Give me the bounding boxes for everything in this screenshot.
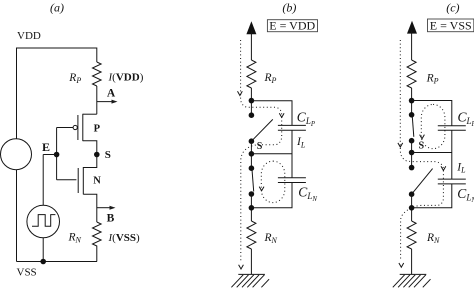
- node B arrow: [97, 207, 112, 209]
- wire bottom rail: [17, 261, 98, 263]
- dashed arrowhead b2: [279, 113, 284, 117]
- dashed current path (b): [241, 40, 282, 261]
- wire branch bottom (c): [412, 184, 452, 208]
- node E: [54, 152, 60, 158]
- wire branch top to CLP: [251, 101, 292, 126]
- svg-text:S: S: [257, 141, 263, 152]
- svg-text:RP: RP: [68, 72, 81, 85]
- op wire E gate vertical: [56, 128, 58, 180]
- svg-text:RN: RN: [264, 232, 278, 245]
- wire below switch N (c): [411, 194, 413, 221]
- VDD arrow: [246, 21, 256, 34]
- svg-text:(b): (b): [282, 1, 296, 15]
- wire branch mid: [251, 153, 292, 155]
- dashed current path (c): [400, 40, 443, 261]
- svg-text:N: N: [93, 175, 101, 186]
- node c7: [409, 205, 415, 211]
- svg-text:P: P: [94, 124, 101, 135]
- node c3: [409, 138, 415, 144]
- svg-text:CLP: CLP: [458, 110, 474, 128]
- svg-text:IL: IL: [456, 162, 466, 175]
- capacitor CLP: [278, 124, 306, 126]
- node b7: [249, 205, 255, 211]
- wire S segment (c): [411, 141, 413, 168]
- capacitor CLP (c): [438, 125, 466, 127]
- node c2: [409, 112, 415, 118]
- node b2: [249, 112, 255, 118]
- svg-text:B: B: [107, 212, 115, 224]
- svg-text:A: A: [107, 87, 116, 99]
- box E = VDD: [267, 20, 317, 32]
- resistor RN: [93, 222, 102, 262]
- pulse source VG: [27, 205, 60, 238]
- pulse source VG wire upper: [42, 155, 44, 206]
- svg-text:RN: RN: [426, 232, 440, 245]
- capacitor CLN: [278, 177, 306, 179]
- wire E to pulse branch: [43, 154, 56, 156]
- node b3: [249, 138, 255, 144]
- svg-text:I(VSS): I(VSS): [108, 232, 141, 244]
- svg-text:RN: RN: [68, 232, 82, 245]
- switch N open (c): [412, 169, 433, 195]
- box E = VSS: [428, 19, 474, 32]
- ground (c): [400, 273, 427, 275]
- pulse source wire lower: [42, 238, 44, 262]
- wire branch bottom: [251, 183, 292, 208]
- wire left rail lower: [16, 170, 18, 262]
- resistor RP (c): [407, 60, 416, 88]
- dashed arrowhead b3: [259, 187, 264, 191]
- resistor RP: [93, 62, 102, 86]
- node b6: [249, 191, 255, 197]
- node b4: [249, 151, 255, 157]
- voltage source V1: [1, 139, 32, 170]
- svg-text:CLN: CLN: [298, 185, 317, 203]
- wire cap mid vertical: [291, 130, 293, 178]
- transistor P (PMOS): [73, 125, 77, 129]
- wire E to PMOS bubble: [57, 127, 74, 129]
- svg-text:IL: IL: [296, 136, 306, 149]
- svg-text:RP: RP: [264, 72, 277, 85]
- dashed arrowhead b4: [239, 265, 244, 269]
- junction pulse-VSS: [40, 259, 46, 265]
- resistor RN (b): [247, 221, 256, 249]
- node A arrow: [97, 101, 114, 103]
- svg-text:VDD: VDD: [17, 30, 41, 42]
- wire below switch N: [250, 194, 252, 221]
- node S: [94, 152, 100, 158]
- svg-text:CLN: CLN: [457, 186, 474, 204]
- node c4: [409, 150, 415, 156]
- dashed loop CLP (c): [421, 104, 445, 148]
- switch P closed (c): [412, 115, 414, 137]
- dashed loop CLN (b): [261, 161, 285, 203]
- resistor RN (c): [407, 221, 416, 249]
- node b5: [249, 165, 255, 171]
- pulse symbol: [32, 215, 55, 227]
- dashed arrowhead c3: [420, 135, 425, 139]
- svg-text:(a): (a): [50, 1, 64, 15]
- wire top rail: [17, 48, 97, 139]
- capacitor CLN (c): [438, 178, 466, 180]
- svg-text:RP: RP: [426, 73, 439, 86]
- dashed arrowhead c4: [399, 263, 404, 267]
- switch P open: [251, 119, 272, 141]
- node b1: [249, 98, 255, 104]
- wire arrow to RP: [250, 31, 252, 60]
- svg-text:S: S: [419, 141, 425, 152]
- resistor RP (b): [247, 60, 256, 88]
- svg-text:E: E: [42, 140, 50, 154]
- node c6: [409, 191, 415, 197]
- dashed arrowhead b1: [238, 91, 243, 95]
- dashed arrowhead c1: [398, 143, 403, 147]
- ground (b): [238, 273, 265, 275]
- wire S segment: [250, 141, 252, 168]
- switch N closed: [252, 169, 254, 191]
- svg-text:I(VDD): I(VDD): [108, 72, 144, 84]
- svg-text:(c): (c): [446, 1, 459, 15]
- svg-text:VSS: VSS: [17, 266, 37, 278]
- dashed arrowhead c2: [441, 166, 446, 170]
- wire resistor to PMOS: [96, 86, 98, 114]
- wire RN to ground: [250, 249, 252, 274]
- wire branch top (c): [412, 101, 452, 126]
- node c1: [409, 98, 415, 104]
- node c5: [409, 165, 415, 171]
- transistor N (NMOS): [57, 179, 77, 181]
- wire RP to switch: [250, 88, 252, 115]
- VSS arrow: [407, 21, 417, 34]
- svg-text:E = VSS: E = VSS: [430, 19, 472, 33]
- svg-text:E = VDD: E = VDD: [269, 19, 315, 33]
- wire cap mid vertical (c): [451, 130, 453, 179]
- wire RP to switch (c): [411, 88, 413, 115]
- wire RN to ground (c): [411, 249, 413, 274]
- wire branch mid (c): [412, 152, 452, 154]
- wire arrow to RP (c): [411, 31, 413, 60]
- svg-text:S: S: [105, 149, 111, 161]
